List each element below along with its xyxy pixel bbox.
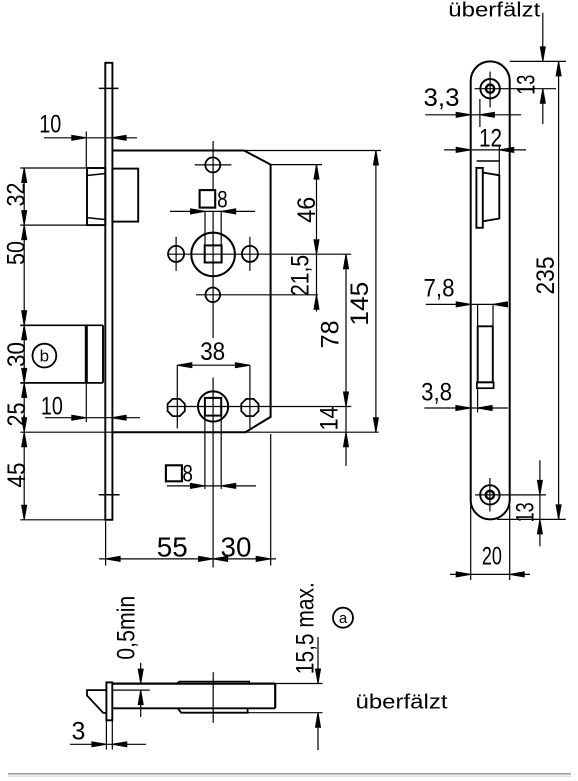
upper square-8 label digit [217, 186, 228, 213]
lower left fixing hole [168, 399, 185, 416]
vertical center axis lower segment [212, 378, 214, 568]
deadbolt bottom edge + extension [20, 382, 103, 384]
footer rule [8, 773, 571, 775]
svg-text:7,8: 7,8 [424, 275, 455, 303]
upper follower center line [167, 253, 351, 255]
dimension 20 extension right [509, 505, 511, 580]
bottom screw hole center line extension [475, 494, 546, 496]
dimension 3 line [70, 743, 146, 745]
dimension 10 deadbolt extension [85, 383, 87, 422]
ueberfaelzt label bottom [356, 692, 449, 714]
balloon a [333, 608, 353, 628]
dimension 10 deadbolt line [45, 417, 140, 419]
upper follower square hole [205, 245, 222, 262]
dimension 3,3 line [425, 114, 521, 116]
deadbolt slot [478, 326, 493, 382]
dimension 3,3 extension [479, 99, 481, 127]
latch head front strip [476, 168, 482, 228]
lower follower center line [167, 406, 351, 408]
dimension 55 text [157, 531, 188, 562]
dimension 0,5min line lower [140, 690, 142, 717]
faceplate bottom extension [20, 519, 112, 521]
lower square-8 label digit [182, 460, 193, 487]
dimension 78/14 line [345, 254, 347, 466]
dimension 38 text [200, 338, 225, 366]
dimension 46/21,5 line [316, 165, 318, 312]
lower right fixing hole [241, 399, 258, 416]
dimension 25 text [3, 403, 31, 427]
dimension 12 extension [498, 145, 500, 175]
lip top extension [112, 689, 150, 691]
bottom cover plate [178, 708, 248, 712]
svg-text:25: 25 [3, 403, 31, 427]
top screw hole inner [486, 85, 494, 93]
left dimension chain line [23, 168, 25, 520]
svg-text:20: 20 [482, 543, 502, 571]
svg-text:45: 45 [3, 463, 31, 488]
dimension 20 line [450, 573, 530, 575]
dimension 10 top text [39, 111, 61, 139]
dimension 13 bottom line [539, 460, 541, 546]
deadbolt top edge + extension [20, 324, 103, 326]
dimension 3,8 extension [477, 388, 479, 412]
dimension 20 extension left [470, 505, 472, 580]
dimension 78 text [316, 320, 344, 348]
dimension 30 backset text [221, 531, 252, 562]
extension line y225 [20, 224, 105, 226]
upper square-8 leader left [204, 211, 206, 245]
lock case outline [112, 151, 270, 433]
svg-text:10: 10 [39, 111, 61, 139]
dimension 145 text [346, 282, 374, 326]
dimension 55-30 line [99, 558, 276, 560]
chamfer corner extension [271, 164, 322, 166]
dimension 15,5 line lower [317, 713, 319, 750]
upper left circle tick [175, 237, 177, 271]
svg-text:21,5: 21,5 [287, 255, 315, 296]
svg-text:8: 8 [217, 186, 228, 213]
svg-text:14: 14 [315, 406, 343, 430]
dimension 0,5min line upper [140, 663, 142, 684]
svg-text:145: 145 [346, 282, 374, 326]
svg-text:32: 32 [3, 183, 31, 207]
bottom screw hole vertical tick [489, 478, 491, 512]
svg-text:46: 46 [293, 197, 321, 223]
dimension 7,8 text [424, 275, 455, 303]
dimension 7,8 extension right [492, 304, 494, 326]
svg-text:überfälzt: überfälzt [356, 692, 449, 714]
plate top extension [510, 60, 566, 62]
dimension 15,5 max text [291, 582, 319, 674]
dimension 10 deadbolt text [41, 392, 63, 420]
balloon b [33, 344, 57, 368]
latch tail box [112, 169, 138, 222]
svg-text:3,3: 3,3 [424, 84, 460, 112]
case right end [274, 684, 276, 709]
upper right fixing circle [242, 246, 258, 262]
dimension 235 text [532, 257, 560, 295]
latch head body trapezoid [483, 173, 500, 222]
dimension 30 text [3, 342, 31, 367]
dimension 30 extension right [270, 434, 272, 566]
dimension 10 top line [44, 137, 137, 139]
faceplate section [106, 682, 112, 720]
bottom cover extension [248, 712, 323, 714]
dimension 38 extension right [249, 365, 251, 428]
top screw hole vertical tick [489, 72, 491, 108]
svg-text:38: 38 [200, 338, 225, 366]
svg-text:12: 12 [479, 124, 502, 152]
plate bottom extension [497, 518, 566, 520]
case bottom surface [112, 707, 275, 709]
dimension 13 top line lower [542, 89, 544, 124]
dimension 38 extension left [176, 365, 178, 428]
vertical center axis upper segment [212, 141, 214, 190]
latch bolt head [87, 168, 105, 225]
bottom screw hole outer [480, 485, 499, 504]
dimension 145 line [375, 151, 377, 433]
dimension 10 top extension [85, 132, 87, 168]
svg-text:3,8: 3,8 [421, 379, 452, 407]
dimension 14 text [315, 406, 343, 430]
dimension 7,8 extension left [477, 304, 479, 326]
dimension 46 text [293, 197, 321, 223]
case top surface extension [275, 683, 322, 685]
lower square-8 dimension line [167, 485, 256, 487]
top hole tick [195, 164, 232, 166]
case top edge extension [245, 150, 381, 152]
dimension 13 top text [512, 75, 540, 95]
dimension 50 text [3, 241, 31, 265]
svg-text:30: 30 [3, 342, 31, 367]
top fixing hole [205, 157, 220, 172]
latch opening top edge [477, 160, 500, 162]
lower follower circle [198, 391, 228, 421]
upper right circle tick [249, 237, 251, 271]
faceplate break tick bottom [99, 494, 120, 496]
extension line y168 [20, 167, 87, 169]
svg-text:10: 10 [41, 392, 63, 420]
upper square-8 label symbol [200, 190, 216, 208]
dimension 3 extension left [105, 720, 107, 749]
svg-text:13: 13 [512, 75, 540, 95]
dimension 3,3 text [424, 84, 460, 112]
dimension 21,5 text [287, 255, 315, 296]
upper follower circle [191, 233, 235, 277]
deadbolt slot lip [477, 382, 494, 388]
top cover plate [177, 682, 250, 684]
dimension 45 text [3, 463, 31, 488]
latch bevel lines [88, 174, 105, 176]
cylinder hole center line [196, 294, 318, 296]
lower square-8 leader right [220, 416, 222, 489]
dimension 12 line [444, 149, 526, 151]
bottom screw hole inner [486, 491, 494, 499]
svg-text:b: b [40, 347, 49, 366]
svg-text:15,5 max.: 15,5 max. [291, 582, 319, 674]
dimension 55 extension left [105, 521, 107, 566]
dimension 32 text [3, 183, 31, 207]
faceplate (front view, left) [105, 63, 112, 520]
top screw hole center line extension [475, 88, 556, 90]
dimension 3 extension right [111, 720, 113, 749]
svg-text:überfälzt: überfälzt [448, 0, 541, 22]
case bottom edge extension [20, 431, 378, 433]
svg-text:50: 50 [3, 241, 31, 265]
dimension 13 bottom text [511, 502, 539, 522]
dimension 38 line [177, 364, 250, 366]
upper left fixing circle [168, 246, 184, 262]
dimension 3,8 text [421, 379, 452, 407]
cylinder hole [206, 288, 221, 303]
deadbolt rear edge [102, 325, 104, 383]
upper square-8 dimension line [170, 210, 255, 212]
svg-text:3: 3 [72, 718, 86, 746]
upper square-8 leader right [220, 211, 222, 245]
deadbolt front face [85, 325, 88, 383]
dimension 7,8 line [426, 303, 508, 305]
dimension 0,5min text [112, 596, 140, 660]
dimension 235 line [558, 61, 560, 519]
dimension 15,5 line upper [317, 637, 319, 684]
rebate lip [87, 690, 106, 713]
svg-text:235: 235 [532, 257, 560, 295]
section center line [212, 672, 214, 723]
svg-text:55: 55 [157, 531, 188, 562]
top screw hole outer [480, 79, 499, 98]
svg-text:a: a [339, 610, 348, 627]
lower follower square hole [205, 398, 221, 416]
lower square-8 label symbol [166, 465, 182, 481]
dimension 13 top line upper [542, 13, 544, 62]
dimension 20 text [482, 543, 502, 571]
lower square-8 leader left [204, 416, 206, 489]
dimension 12 text [479, 124, 502, 152]
case top surface [112, 682, 275, 684]
dimension 3,8 line [424, 407, 508, 409]
dimension 3 text [72, 718, 86, 746]
ueberfaelzt label top [448, 0, 541, 22]
svg-text:78: 78 [316, 320, 344, 348]
faceplate break tick top [99, 87, 119, 89]
svg-text:0,5min: 0,5min [112, 596, 140, 660]
faceplate stadium outline [471, 61, 510, 519]
